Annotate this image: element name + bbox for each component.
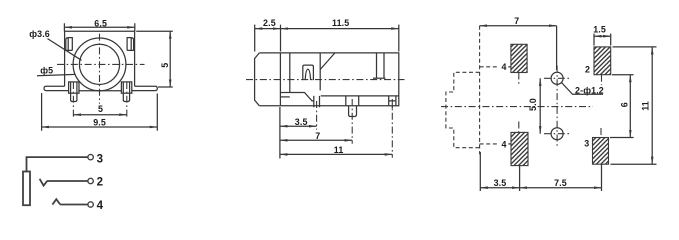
wire pin2 — [47, 180, 88, 182]
right leg — [123, 82, 129, 102]
dim 9.5 extension lines — [42, 93, 158, 131]
svg-text:11.5: 11.5 — [332, 18, 349, 28]
left flange — [44, 86, 68, 90]
svg-text:11: 11 — [334, 145, 344, 155]
svg-text:3.5: 3.5 — [494, 178, 507, 188]
right lug — [121, 82, 131, 93]
dim 7 fp extension — [556, 26, 558, 70]
leader 2-ф1.2 — [562, 83, 604, 95]
interior wall — [289, 53, 291, 93]
hole 1 — [551, 72, 563, 84]
svg-text:4: 4 — [502, 139, 507, 149]
pad 4 top — [511, 44, 527, 72]
terminal 3 — [88, 154, 93, 159]
pin2 box — [346, 96, 359, 106]
dim 5.0 line — [539, 78, 541, 133]
barrel chamfered nose — [255, 53, 260, 106]
inner circle ф3.6 — [79, 44, 119, 84]
pin2 centerline — [351, 99, 353, 144]
pin1 side verticals — [314, 96, 320, 107]
svg-text:5: 5 — [160, 63, 170, 68]
dash to pad4 top — [508, 66, 511, 68]
pad 2 — [594, 47, 611, 75]
outer circle ф5 — [73, 38, 126, 91]
svg-text:6: 6 — [619, 102, 629, 107]
svg-text:1.5: 1.5 — [593, 24, 606, 34]
wire pin4 — [60, 204, 88, 206]
dim 7.5 fp line — [520, 187, 602, 189]
pad 3 — [593, 138, 609, 165]
terminal 2 — [88, 178, 93, 183]
holes vertical centerline — [556, 66, 558, 148]
svg-text:3: 3 — [97, 153, 103, 165]
pin2 tab — [349, 106, 357, 117]
dim 6.5 extension lines — [64, 23, 134, 31]
svg-text:9.5: 9.5 — [93, 118, 106, 128]
dim 6 line — [629, 75, 631, 138]
pin4 centerline — [391, 99, 393, 158]
left leg — [71, 82, 77, 102]
pad4 bottom extension — [519, 166, 521, 191]
dim 5 height extensions — [136, 31, 173, 87]
pad4 centerline dashdot — [518, 73, 520, 133]
pads23 centerline dashdot — [600, 75, 603, 138]
vertical centerline — [99, 34, 101, 104]
svg-text:5: 5 — [98, 104, 103, 114]
dim 5 height line — [169, 31, 171, 87]
barrel/body joint line — [279, 53, 281, 106]
right slot verticals — [377, 53, 385, 78]
leader ф3.6 — [48, 39, 82, 61]
svg-text:4: 4 — [97, 200, 104, 212]
dim 11.5 line — [281, 28, 399, 30]
svg-text:2: 2 — [97, 177, 103, 189]
hole2 horizontal centerline — [544, 133, 571, 135]
pad3 bottom extension — [601, 164, 603, 191]
svg-text:2-ф1.2: 2-ф1.2 — [575, 86, 604, 96]
bottom-left step — [280, 96, 289, 98]
dim 6 extensions — [610, 75, 634, 138]
wire pin3 — [27, 157, 89, 171]
pin centerline right — [126, 82, 128, 119]
contact arch — [305, 69, 310, 80]
dim 3.5 line — [280, 125, 317, 127]
dim 5 pins line — [73, 114, 126, 116]
left dim extension — [279, 107, 281, 159]
side centerline — [246, 79, 405, 81]
right slot bottom — [373, 77, 386, 79]
side body outline — [259, 53, 399, 106]
pin1 centerline — [316, 101, 318, 130]
svg-text:2.5: 2.5 — [263, 18, 276, 28]
svg-text:ф5: ф5 — [40, 66, 53, 76]
pad 4 bottom — [511, 132, 528, 165]
sleeve bar — [23, 172, 30, 206]
svg-text:11: 11 — [641, 101, 651, 111]
interior wall 2 — [319, 53, 321, 91]
right flange — [132, 86, 158, 90]
footprint centerline — [441, 106, 593, 108]
svg-text:4: 4 — [502, 62, 507, 72]
interior chamfer diagonal — [320, 53, 335, 70]
dim 2.5 line — [255, 28, 281, 30]
switch bump — [52, 199, 60, 204]
svg-text:3.5: 3.5 — [295, 117, 308, 127]
svg-text:7: 7 — [514, 16, 519, 26]
svg-text:7: 7 — [315, 131, 320, 141]
dashed leader pad4 bottom — [480, 143, 499, 145]
dim 6.5 line — [64, 26, 134, 28]
dim 11 line — [280, 153, 392, 155]
dashed leader pad4 top — [480, 66, 499, 68]
dim 1.5 extensions — [594, 34, 611, 46]
body bottom edge — [78, 90, 121, 92]
top tab right — [127, 38, 134, 51]
hole1 horizontal centerline — [544, 77, 571, 79]
dim 11.5 extension right — [398, 25, 400, 52]
dim 11 fp extensions — [611, 47, 657, 164]
svg-text:7.5: 7.5 — [554, 178, 567, 188]
svg-text:ф3.6: ф3.6 — [29, 29, 50, 39]
dash to pad4 bottom — [508, 143, 511, 145]
left lug — [69, 82, 79, 93]
svg-text:5.0: 5.0 — [528, 98, 538, 111]
dim 9.5 line — [42, 126, 158, 128]
body front outline — [65, 31, 135, 86]
tip contact V — [40, 179, 48, 186]
pin centerline left — [72, 82, 74, 119]
hole 2 — [551, 128, 563, 140]
svg-text:3: 3 — [584, 139, 589, 149]
top tab left — [66, 38, 73, 51]
contact window — [303, 65, 314, 80]
dashed mounting face line — [479, 26, 481, 155]
svg-text:6.5: 6.5 — [94, 18, 107, 28]
dashed barrel silhouette — [446, 72, 480, 147]
dim 3.5 fp line — [480, 187, 519, 189]
dim 11 fp line — [651, 47, 653, 164]
leader ф5 — [37, 74, 76, 75]
right notch box — [389, 96, 396, 108]
svg-text:2: 2 — [585, 65, 590, 75]
dim 7 fp line — [480, 25, 557, 27]
bottom-left shelf — [280, 93, 313, 101]
dim 2.5 extensions — [255, 25, 281, 52]
horizontal centerline — [57, 63, 145, 65]
dim 7 line — [280, 139, 352, 141]
bottom rail top — [321, 95, 399, 97]
fp left bottom extension — [479, 152, 481, 191]
terminal 4 — [88, 202, 93, 207]
dim 1.5 line — [594, 35, 611, 37]
